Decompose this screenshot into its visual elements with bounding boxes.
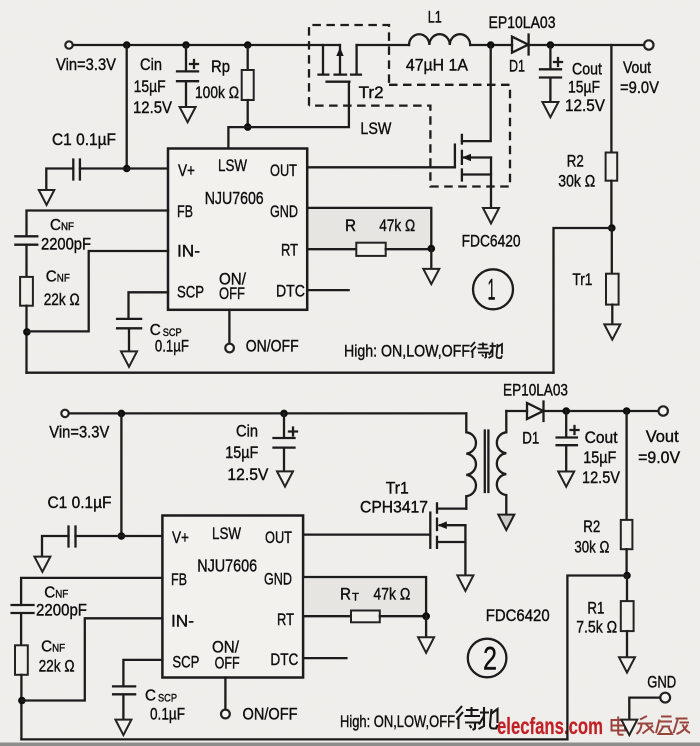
svg-text:15µF: 15µF bbox=[568, 78, 600, 97]
svg-text:High: ON,LOW,OFF: High: ON,LOW,OFF bbox=[344, 343, 470, 361]
svg-text:Vout: Vout bbox=[623, 58, 651, 77]
source tick and lead Tr1 bbox=[437, 537, 465, 548]
svg-text:0.1µF: 0.1µF bbox=[155, 337, 189, 356]
svg-text:R: R bbox=[345, 216, 356, 235]
node: C1/V+ junction bbox=[123, 165, 131, 173]
resistor R2 (circuit 2) bbox=[625, 411, 627, 520]
svg-text:DTC: DTC bbox=[276, 282, 305, 301]
ground (Tr2 source) bbox=[483, 208, 499, 223]
node: CNF junction bbox=[23, 328, 31, 336]
capacitor CNF 2200pF (circuit 2) bbox=[12, 605, 34, 645]
wire: D1 to Vout bbox=[529, 44, 644, 46]
svg-text:12.5V: 12.5V bbox=[582, 468, 621, 487]
wire: bottom rail (circuit 2) bbox=[21, 738, 567, 740]
node: C1/V+ junction (circuit 2) bbox=[118, 532, 126, 540]
plus mark Cin bbox=[190, 60, 198, 68]
resistor Tr1 (circuit 1) bbox=[611, 228, 613, 274]
wire: bottom rail (circuit 1) bbox=[27, 372, 554, 374]
body arrow Tr2 upper bbox=[336, 48, 343, 57]
wire: D1 to Vout (circuit 2) bbox=[544, 410, 658, 412]
capacitor Cout (circuit 2) bbox=[557, 411, 577, 472]
wire: V+ branch (circuit 2) bbox=[120, 413, 122, 536]
svg-text:GND: GND bbox=[647, 673, 676, 692]
svg-text:Tr2: Tr2 bbox=[359, 83, 384, 102]
resistor CNF 22k (circuit 2) bbox=[15, 645, 28, 675]
wire: RT pin lead bbox=[307, 248, 356, 250]
plus mark Cout2 bbox=[571, 426, 579, 434]
svg-text:C: C bbox=[50, 217, 61, 234]
svg-text:Cin: Cin bbox=[236, 422, 258, 441]
drain tick and lead Tr1 bbox=[437, 503, 466, 512]
svg-text:OFF: OFF bbox=[219, 284, 245, 303]
svg-text:7.5k Ω: 7.5k Ω bbox=[576, 618, 617, 637]
wire: C1 leads (circuit 2) bbox=[42, 536, 121, 557]
wire: Vin rail left segment bbox=[73, 44, 340, 46]
svg-text:22k Ω: 22k Ω bbox=[44, 290, 80, 309]
svg-text:R1: R1 bbox=[587, 599, 604, 618]
node: R2 junction (circuit 2) bbox=[623, 407, 631, 415]
svg-text:D1: D1 bbox=[509, 57, 525, 76]
drain tick bbox=[461, 135, 463, 144]
ground (GND terminal) bbox=[621, 720, 637, 736]
gate bar Tr2 lower bbox=[454, 145, 456, 167]
svg-text:15µF: 15µF bbox=[134, 77, 166, 96]
wire: OUT pin to gate bbox=[307, 166, 455, 168]
resistor Rp bbox=[247, 45, 249, 70]
inductor L1 bbox=[409, 34, 470, 45]
wire: L1 to D1 bbox=[470, 44, 512, 46]
body tick and arrow Tr2 lower bbox=[462, 151, 491, 164]
ground (Tr1 leg) bbox=[604, 324, 620, 339]
node: rail junction Cin (circuit 2) bbox=[280, 410, 288, 418]
capacitor Cout (circuit 1) bbox=[540, 45, 561, 102]
svg-text:RT: RT bbox=[277, 610, 294, 629]
ground (R1) bbox=[619, 657, 635, 672]
svg-text:EP10LA03: EP10LA03 bbox=[503, 381, 568, 400]
wire: secondary to D1 bbox=[506, 410, 527, 412]
op-amp U1: IC NJU7606 box (circuit 1) bbox=[168, 149, 307, 310]
node: rail junction V+ (circuit 2) bbox=[118, 410, 126, 418]
source tick and lead Tr2 lower bbox=[462, 170, 491, 181]
wire: ON/OFF stub bbox=[228, 310, 230, 343]
svg-text:15µF: 15µF bbox=[225, 443, 258, 462]
svg-text:2: 2 bbox=[483, 641, 497, 677]
resistor R1 (circuit 2) bbox=[626, 576, 628, 602]
terminal Vout (circuit 1) bbox=[644, 40, 653, 49]
svg-text:EP10LA03: EP10LA03 bbox=[489, 13, 556, 32]
ground (CSCP 2) bbox=[115, 720, 131, 736]
R 47k highlighted box bbox=[308, 208, 431, 249]
wire: SCP pin to CSCP bbox=[129, 292, 169, 319]
svg-text:NF: NF bbox=[52, 643, 65, 655]
ground (secondary) bbox=[498, 515, 514, 531]
svg-text:SCP: SCP bbox=[177, 283, 204, 302]
svg-text:2200pF: 2200pF bbox=[41, 235, 91, 254]
svg-text:C: C bbox=[145, 688, 156, 705]
diode D1 (circuit 2) bbox=[527, 402, 544, 422]
svg-text:Tr1: Tr1 bbox=[572, 270, 592, 289]
ground (Cout) bbox=[542, 102, 558, 117]
ground (Cout circuit 2) bbox=[558, 472, 574, 487]
capacitor C1 bbox=[73, 160, 80, 180]
note CJK standby (circuit 1) bbox=[471, 342, 503, 358]
svg-text:elecfans.com: elecfans.com bbox=[497, 713, 603, 739]
plus mark Cout bbox=[554, 58, 562, 66]
terminal Vout (circuit 2) bbox=[659, 406, 668, 415]
svg-text:LSW: LSW bbox=[360, 119, 391, 138]
svg-text:Vin=3.3V: Vin=3.3V bbox=[56, 55, 117, 74]
svg-text:C1 0.1µF: C1 0.1µF bbox=[52, 130, 116, 149]
svg-text:C: C bbox=[44, 585, 55, 602]
svg-text:V+: V+ bbox=[178, 161, 195, 180]
wire: DTC stub bbox=[307, 289, 348, 291]
svg-text:LSW: LSW bbox=[218, 156, 247, 175]
svg-text:Cout: Cout bbox=[572, 60, 602, 79]
svg-text:NF: NF bbox=[61, 221, 74, 233]
wire: Vin rail (circuit 2) bbox=[69, 412, 466, 414]
node: rail junction to Cin bbox=[182, 41, 190, 49]
transformer core bbox=[485, 431, 489, 493]
svg-text:DTC: DTC bbox=[270, 650, 298, 669]
svg-text:Vout: Vout bbox=[646, 427, 679, 446]
svg-text:IN-: IN- bbox=[177, 242, 200, 261]
svg-text:NF: NF bbox=[55, 589, 68, 601]
FDC6420 package dashed outline bbox=[309, 25, 389, 106]
svg-text:T: T bbox=[352, 592, 359, 604]
svg-text:OUT: OUT bbox=[270, 161, 297, 180]
svg-text:FDC6420: FDC6420 bbox=[486, 606, 550, 625]
svg-text:D1: D1 bbox=[522, 429, 539, 448]
terminal Vin (circuit 2) bbox=[61, 410, 68, 417]
svg-text:V+: V+ bbox=[172, 528, 189, 547]
svg-text:LSW: LSW bbox=[212, 524, 241, 543]
svg-text:IN-: IN- bbox=[171, 612, 194, 631]
capacitor CNF 2200pF (circuit 1) bbox=[15, 236, 37, 277]
resistor RT (47k) bbox=[351, 611, 380, 623]
node: R2/R1 junction (circuit 2) bbox=[623, 572, 631, 580]
transformer secondary winding bbox=[497, 411, 506, 515]
svg-text:OFF: OFF bbox=[215, 654, 240, 673]
wire: FB pin to CNF bbox=[27, 211, 169, 237]
wire: V+ branch down bbox=[126, 45, 128, 169]
svg-text:ON/OFF: ON/OFF bbox=[246, 337, 299, 356]
plus mark Cin2 bbox=[289, 428, 297, 436]
watermark CJK dianzifashaoyou bbox=[612, 716, 691, 735]
svg-text:L1: L1 bbox=[428, 8, 442, 27]
wire: GND pin over box top (2) bbox=[303, 577, 426, 616]
wire: RT pin lead (2) bbox=[303, 615, 351, 617]
svg-text:GND: GND bbox=[264, 570, 292, 589]
svg-text:0.1µF: 0.1µF bbox=[150, 705, 185, 724]
svg-text:12.5V: 12.5V bbox=[133, 98, 173, 117]
transistor Tr2 upper PMOS legs bbox=[319, 45, 361, 75]
wire: V+ pin lead bbox=[127, 167, 168, 169]
svg-text:Cin: Cin bbox=[140, 55, 162, 74]
node: Cout junction bbox=[547, 41, 555, 49]
capacitor Cin (circuit 1) bbox=[177, 45, 198, 107]
wire: V+ pin lead (circuit 2) bbox=[121, 535, 162, 537]
wire: SCP pin to CSCP (2) bbox=[123, 660, 162, 687]
resistor CNF 22k (circuit 1) bbox=[20, 277, 33, 306]
svg-text:SCP: SCP bbox=[172, 653, 199, 672]
wire: rail right segment to L1 bbox=[357, 44, 409, 46]
svg-text:SCP: SCP bbox=[158, 693, 177, 705]
svg-text:C: C bbox=[46, 269, 57, 286]
wire: DTC stub (2) bbox=[303, 657, 346, 659]
node: Cout junction (circuit 2) bbox=[562, 407, 570, 415]
svg-text:22k Ω: 22k Ω bbox=[39, 657, 75, 676]
transistor Tr2 lower NMOS: drain lead from switch node bbox=[462, 45, 491, 141]
note CJK standby (circuit 2) bbox=[456, 706, 498, 730]
wire: junction to ground (2) bbox=[425, 616, 427, 637]
svg-text:30k Ω: 30k Ω bbox=[574, 538, 609, 557]
node: RT/ground junction (2) bbox=[422, 612, 430, 620]
svg-text:NJU7606: NJU7606 bbox=[205, 188, 264, 208]
RT 47k highlighted box (2) bbox=[304, 577, 426, 616]
node: CNF junction (2) bbox=[18, 697, 26, 705]
svg-text:OUT: OUT bbox=[265, 528, 292, 547]
node: rail junction to V+ bbox=[123, 41, 131, 49]
ground (CSCP) bbox=[121, 351, 137, 366]
ground (Cin) bbox=[180, 107, 196, 122]
terminal ON/OFF (circuit 1) bbox=[225, 344, 234, 353]
node: rail junction to Rp bbox=[244, 41, 252, 49]
numbered node 2 bbox=[468, 639, 507, 678]
svg-text:12.5V: 12.5V bbox=[227, 465, 269, 484]
capacitor Cin (circuit 2) bbox=[274, 413, 295, 471]
transformer Tr1 primary winding bbox=[466, 413, 476, 508]
terminal Vin (circuit 1) bbox=[65, 41, 72, 48]
gate bar Tr2 upper bbox=[327, 81, 350, 83]
svg-text:47k Ω: 47k Ω bbox=[379, 216, 415, 235]
ground (Cin circuit 2) bbox=[277, 471, 293, 486]
wire: source to ground (Tr1) bbox=[464, 525, 466, 575]
svg-text:47µH 1A: 47µH 1A bbox=[406, 56, 469, 75]
wire: FB pin net (circuit 2) bbox=[21, 578, 162, 605]
svg-text:R: R bbox=[340, 585, 351, 604]
svg-text:C1 0.1µF: C1 0.1µF bbox=[48, 493, 112, 512]
wire: source down to ground bbox=[490, 158, 492, 209]
svg-text:30k Ω: 30k Ω bbox=[558, 172, 595, 191]
svg-text:=9.0V: =9.0V bbox=[638, 448, 681, 467]
ground (C1) bbox=[39, 190, 55, 205]
terminal ON/OFF (circuit 2) bbox=[221, 710, 230, 719]
gate bar Tr1 bbox=[429, 513, 431, 548]
svg-text:GND: GND bbox=[270, 202, 298, 221]
svg-text:Vin=3.3V: Vin=3.3V bbox=[49, 423, 110, 442]
wire: ON/OFF stub (2) bbox=[224, 678, 226, 709]
resistor R (47k) bbox=[356, 243, 385, 256]
svg-text:15µF: 15µF bbox=[583, 448, 616, 467]
svg-text:ON/OFF: ON/OFF bbox=[243, 705, 298, 724]
capacitor CSCP (circuit 1) bbox=[117, 319, 141, 352]
svg-text:1: 1 bbox=[488, 274, 496, 307]
svg-text:RT: RT bbox=[281, 241, 298, 260]
wire: LSW net from pin to gate of Tr2 bbox=[228, 82, 349, 149]
terminal GND bbox=[660, 693, 670, 703]
svg-text:Rp: Rp bbox=[211, 57, 230, 76]
scan edge band bottom bbox=[0, 743, 700, 746]
svg-text:2200pF: 2200pF bbox=[36, 601, 87, 620]
svg-text:FDC6420: FDC6420 bbox=[462, 232, 521, 251]
svg-text:High: ON,LOW,OFF: High: ON,LOW,OFF bbox=[340, 713, 455, 731]
svg-text:NF: NF bbox=[57, 273, 70, 285]
svg-text:47k Ω: 47k Ω bbox=[373, 585, 410, 604]
ground (RT 47k) bbox=[418, 637, 434, 653]
wire: junction to ground bbox=[430, 249, 432, 269]
ground (Tr1 source) bbox=[457, 575, 473, 591]
ground (R 47k) bbox=[423, 269, 439, 284]
diode D1 (circuit 1) bbox=[512, 35, 529, 55]
svg-text:Cout: Cout bbox=[585, 428, 618, 447]
svg-text:FB: FB bbox=[171, 570, 187, 589]
node: switch node junction bbox=[487, 41, 495, 49]
capacitor C1 (circuit 2) bbox=[69, 527, 76, 547]
svg-text:C: C bbox=[41, 639, 52, 656]
op-amp U2: IC NJU7606 box (circuit 2) bbox=[162, 516, 303, 678]
node: R2/Tr1 feedback junction bbox=[608, 224, 616, 232]
node: Rp/LSW junction bbox=[244, 123, 252, 131]
resistor R2 (circuit 1) bbox=[610, 45, 612, 153]
svg-text:FB: FB bbox=[177, 202, 193, 221]
node: R/ground junction bbox=[428, 245, 436, 253]
svg-text:NJU7606: NJU7606 bbox=[197, 556, 257, 576]
svg-text:R2: R2 bbox=[583, 517, 600, 536]
wire: IN- pin L-net (2) bbox=[22, 618, 163, 700]
wire: feedback to bottom rail (circuit 2) bbox=[567, 576, 627, 740]
svg-text:R2: R2 bbox=[567, 152, 584, 171]
numbered node 1 bbox=[473, 269, 513, 309]
capacitor CSCP (circuit 2) bbox=[113, 686, 135, 719]
svg-text:=9.0V: =9.0V bbox=[620, 78, 660, 97]
wire: C1 left lead bbox=[46, 169, 126, 191]
wire: IN- pin L-net bbox=[27, 251, 168, 331]
wire: GND pin over box top bbox=[307, 208, 431, 248]
wire: feedback to bottom rail bbox=[554, 228, 612, 373]
ground (C1 circuit 2) bbox=[34, 557, 50, 572]
svg-text:CPH3417: CPH3417 bbox=[360, 498, 428, 517]
svg-text:Tr1: Tr1 bbox=[386, 479, 409, 498]
svg-text:100k Ω: 100k Ω bbox=[195, 83, 239, 102]
transistor Tr1 CPH3417: gate wire from OUT bbox=[303, 533, 430, 535]
svg-text:12.5V: 12.5V bbox=[565, 96, 606, 115]
wire: GND terminal lead bbox=[629, 698, 659, 720]
body tick and arrow Tr1 bbox=[437, 519, 465, 530]
